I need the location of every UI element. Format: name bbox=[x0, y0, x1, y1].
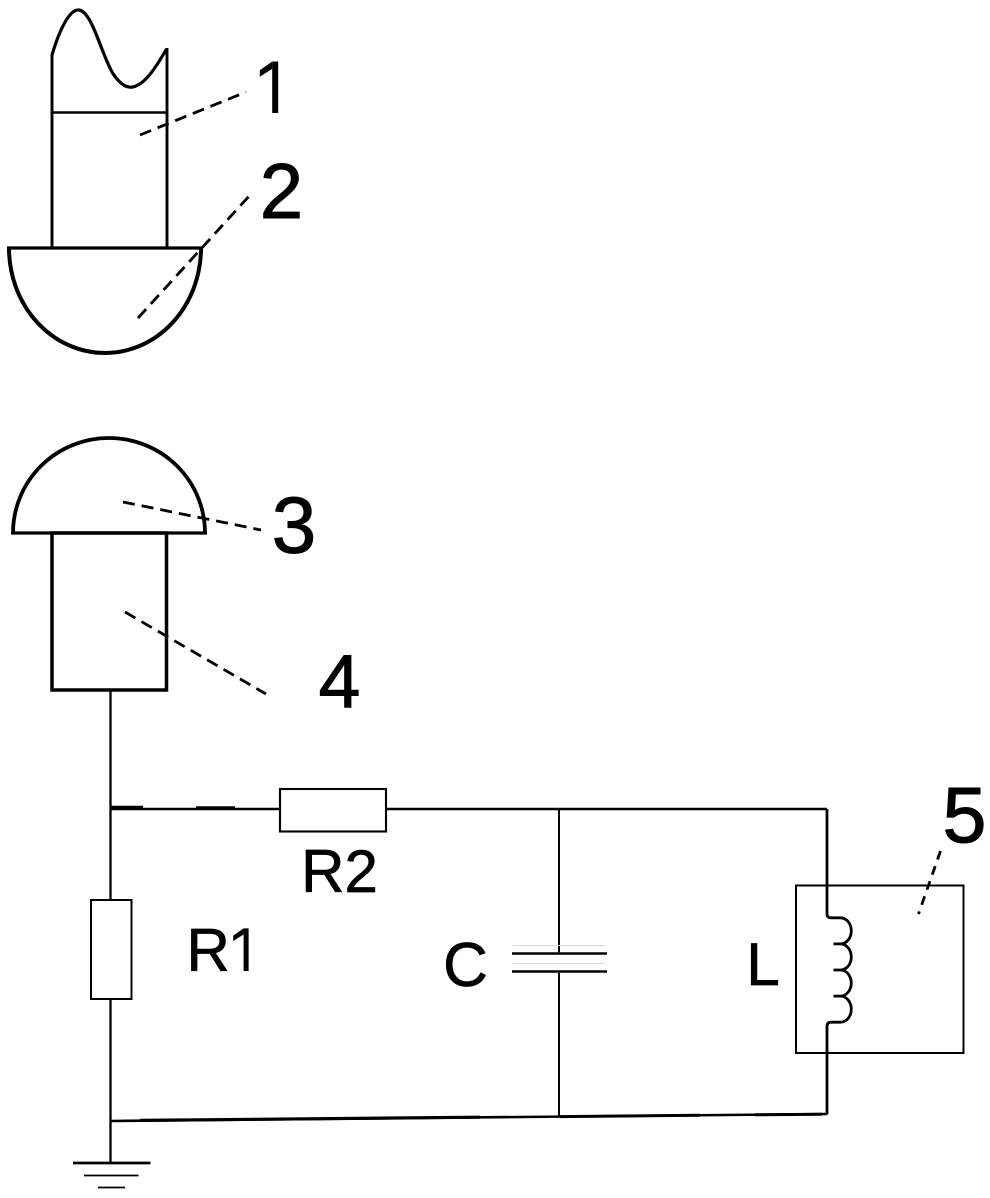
capacitor C wires bbox=[558, 809, 560, 952]
ground symbol bbox=[73, 1163, 151, 1188]
leader line to 4 bbox=[125, 612, 266, 694]
wire R2 to top-right corner bbox=[386, 808, 827, 810]
leader line to 2 bbox=[138, 194, 251, 318]
dome 3 (half-disc, flat side down) bbox=[11, 438, 207, 533]
resistor R1 bbox=[91, 900, 132, 999]
resistor R2 bbox=[280, 789, 386, 832]
svg-text:4: 4 bbox=[319, 639, 361, 723]
svg-text:C: C bbox=[443, 931, 488, 1000]
svg-text:5: 5 bbox=[943, 770, 987, 859]
leader line to 3 bbox=[123, 502, 261, 530]
inductor L wire and coil bbox=[827, 809, 851, 1115]
leader line to 1 bbox=[140, 92, 246, 135]
capacitor ghost lines bbox=[513, 946, 605, 964]
svg-text:3: 3 bbox=[272, 481, 317, 570]
transducer body 4 (rectangle) bbox=[52, 533, 167, 690]
label 1 bbox=[260, 62, 278, 114]
dome 2 (half-disc, flat side up) bbox=[7, 248, 203, 353]
wire R1 to ground rail bbox=[109, 999, 111, 1163]
wire from body 4 down to node A bbox=[109, 690, 111, 900]
capacitor C plates bbox=[512, 954, 607, 972]
svg-text:L: L bbox=[746, 931, 779, 998]
bottom wire overlay (scan doubling) bbox=[140, 1117, 480, 1120]
box 5 (magnet housing) bbox=[796, 886, 964, 1054]
svg-text:R2: R2 bbox=[301, 838, 378, 905]
sensor body 1 (rod with break line) bbox=[52, 10, 167, 248]
wire bottom rail (ground net) bbox=[111, 1114, 828, 1121]
svg-text:R: R bbox=[187, 917, 230, 984]
svg-text:2: 2 bbox=[260, 147, 303, 235]
leader line to 5 bbox=[919, 851, 941, 914]
wire overlay strokes at node A (scan doubling) bbox=[111, 806, 143, 809]
wire node A to R2 (top rail) bbox=[111, 808, 281, 810]
